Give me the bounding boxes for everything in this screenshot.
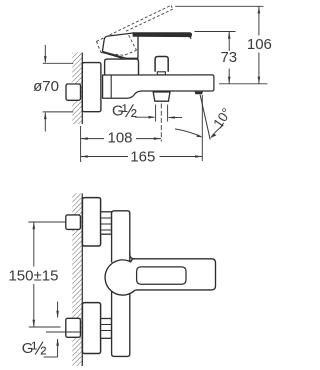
grip underside shadow line bbox=[103, 52, 123, 58]
lever bar (top view, closed position) bbox=[133, 33, 192, 37]
dashed grip left edge bbox=[96, 41, 101, 52]
svg-text:106: 106 bbox=[247, 36, 272, 53]
lever tip droop bbox=[189, 37, 191, 39]
outlet thread extension lines bbox=[155, 105, 157, 122]
dim Ø70 extension lines bbox=[43, 62, 74, 64]
dashed lever tip bbox=[171, 5, 173, 9]
handle grip wedge (top view, closed position) bbox=[102, 33, 138, 58]
body vertical column lower part (front view) bbox=[112, 292, 130, 357]
dim 106 line bbox=[258, 6, 260, 35]
top escutcheon (front view) bbox=[82, 198, 100, 246]
extension line from lever top bbox=[195, 31, 236, 33]
bottom extension line (spout axis) bbox=[219, 83, 267, 85]
bottom square inner line bbox=[67, 331, 80, 333]
dashed lever top line (grip top + lever top) bbox=[96, 5, 171, 41]
svg-text:½: ½ bbox=[32, 339, 47, 359]
dim 165 line bbox=[81, 156, 128, 158]
svg-text:½: ½ bbox=[122, 101, 137, 121]
body vertical column upper part (front view) bbox=[112, 211, 130, 263]
right extension line from spout tip bbox=[201, 95, 203, 161]
bottom supply union square nut (front view) bbox=[66, 318, 81, 337]
G1/2 leader line bbox=[135, 116, 155, 118]
dim 108 bbox=[81, 126, 161, 162]
G1/2 arrowheads (top view) bbox=[148, 116, 155, 119]
dim Ø70 arrow lines bbox=[44, 45, 46, 63]
dim Ø70 arrowheads bbox=[44, 56, 47, 63]
lower arrow tail + leader bbox=[57, 339, 59, 357]
dim 73 line bbox=[228, 32, 230, 52]
top supply union square nut (front view) bbox=[66, 215, 81, 230]
wall escutcheon Ø70 (top view, side) bbox=[82, 63, 101, 112]
10 degree angle leader arc left bbox=[175, 129, 201, 137]
dim 165 bbox=[81, 95, 203, 161]
bottom escutcheon (front view) bbox=[82, 303, 100, 354]
left extension line (escutcheon face) bbox=[80, 126, 82, 162]
svg-text:108: 108 bbox=[107, 130, 132, 147]
dashed grip right edge bbox=[129, 35, 137, 50]
wall section hatch (top view) bbox=[72, 53, 82, 124]
dim 150 bottom extension lines bbox=[29, 326, 61, 328]
diverter knob neck bbox=[157, 72, 165, 75]
dashed handle (open position) bbox=[96, 5, 172, 55]
dashed grip bottom edge bbox=[101, 50, 137, 55]
svg-text:165: 165 bbox=[130, 148, 155, 165]
shower hose outlet G1/2 below body (top view) bbox=[153, 92, 170, 101]
svg-text:73: 73 bbox=[220, 49, 237, 66]
svg-text:10°: 10° bbox=[210, 105, 234, 130]
diverter knob (top view) bbox=[155, 57, 168, 72]
upper arrow tail bbox=[57, 302, 59, 318]
connector between escutcheon and body (top view) bbox=[103, 76, 112, 98]
svg-text:ø70: ø70 bbox=[33, 78, 59, 95]
top connector with rings (front view) bbox=[101, 212, 112, 234]
aerator at spout tip bbox=[195, 92, 204, 95]
wall section hatch (front view) bbox=[72, 194, 82, 367]
extension line from dashed lever tip bbox=[175, 5, 263, 7]
G1/2 opposing arrow tail bbox=[169, 117, 182, 119]
dim 108 line bbox=[81, 138, 104, 140]
bottom connector with rings (front view) bbox=[101, 319, 112, 339]
dim 106 bbox=[175, 6, 267, 84]
mixer body / spout (top view) bbox=[103, 75, 214, 98]
10 degree angle leader right bbox=[212, 125, 224, 137]
dim 150 line bbox=[33, 222, 35, 267]
dashed lever bottom line bbox=[126, 9, 173, 31]
dim G1/2 (front view) bbox=[44, 302, 58, 358]
lever inner cutout bbox=[137, 267, 186, 284]
fillet column-to-lever top (front view) bbox=[130, 252, 135, 259]
10 degree slant line bbox=[200, 95, 210, 140]
dim 150 top extension line bbox=[28, 221, 65, 223]
cartridge housing (top view) bbox=[105, 59, 139, 75]
dim 73 bbox=[195, 32, 236, 84]
svg-text:150±15: 150±15 bbox=[8, 267, 58, 284]
lever handle + cartridge dome silhouette (front view) bbox=[105, 259, 215, 295]
body internal division line bbox=[110, 76, 112, 98]
outlet axis dashed line bbox=[160, 104, 162, 142]
supply union square nut (top view, inside wall) bbox=[66, 84, 81, 100]
